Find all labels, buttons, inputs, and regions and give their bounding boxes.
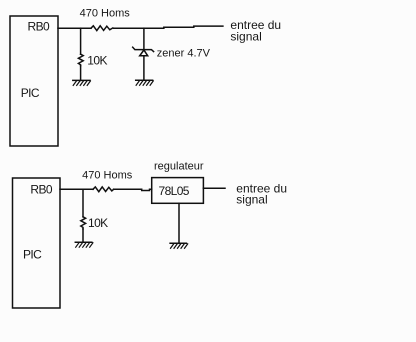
svg-text:470 Homs: 470 Homs	[82, 169, 133, 181]
svg-text:signal: signal	[236, 192, 267, 206]
node B vertical wire to R4 (bottom)	[82, 189, 84, 217]
wire jog to signal entry (top)	[164, 26, 223, 28]
svg-text:regulateur: regulateur	[154, 161, 204, 173]
zener diode D1 4.7V	[133, 47, 154, 56]
wire regulator output to signal entry (bottom)	[203, 187, 225, 189]
resistor R2 10K (top, vertical zigzag)	[78, 54, 83, 65]
svg-text:zener 4.7V: zener 4.7V	[157, 48, 211, 60]
svg-text:PIC: PIC	[21, 86, 40, 100]
svg-text:78L05: 78L05	[159, 184, 190, 198]
svg-text:RB0: RB0	[28, 20, 50, 34]
svg-text:470 Homs: 470 Homs	[80, 7, 131, 19]
node A vertical wire to R2 (top)	[80, 28, 82, 54]
wire regulator ground pin	[178, 203, 180, 243]
wire zener anode to ground	[143, 56, 145, 81]
wire zener node to zener cathode (top)	[143, 28, 145, 49]
wire RB0 to node B (bottom)	[60, 188, 93, 190]
ground G1 (top, under 10K)	[73, 80, 91, 85]
wire R2 to ground (top)	[80, 66, 82, 81]
svg-text:RB0: RB0	[30, 183, 52, 197]
svg-text:10K: 10K	[87, 54, 107, 68]
regulator U3 78L05 box	[152, 178, 204, 204]
svg-text:PIC: PIC	[23, 248, 42, 262]
resistor R4 10K (bottom, vertical zigzag)	[81, 217, 86, 229]
resistor R1 470 Ohms (top, horizontal zigzag)	[91, 26, 114, 31]
PIC box U1 (top)	[10, 16, 58, 146]
wire R3 to regulator (bottom, with jog)	[114, 189, 152, 190]
svg-text:10K: 10K	[88, 216, 108, 230]
wire R1 to zener node (top)	[114, 27, 164, 29]
wire R4 to ground (bottom)	[82, 229, 84, 242]
ground G3 (bottom, under 10K)	[75, 242, 93, 247]
resistor R3 470 Ohms (bottom, horizontal zigzag)	[93, 187, 114, 192]
wire RB0 to node A (top)	[58, 27, 91, 29]
ground G2 (top, under zener)	[136, 80, 154, 85]
ground G4 (bottom, under regulator)	[170, 243, 188, 248]
PIC box U2 (bottom)	[13, 178, 61, 308]
svg-text:signal: signal	[230, 29, 261, 43]
